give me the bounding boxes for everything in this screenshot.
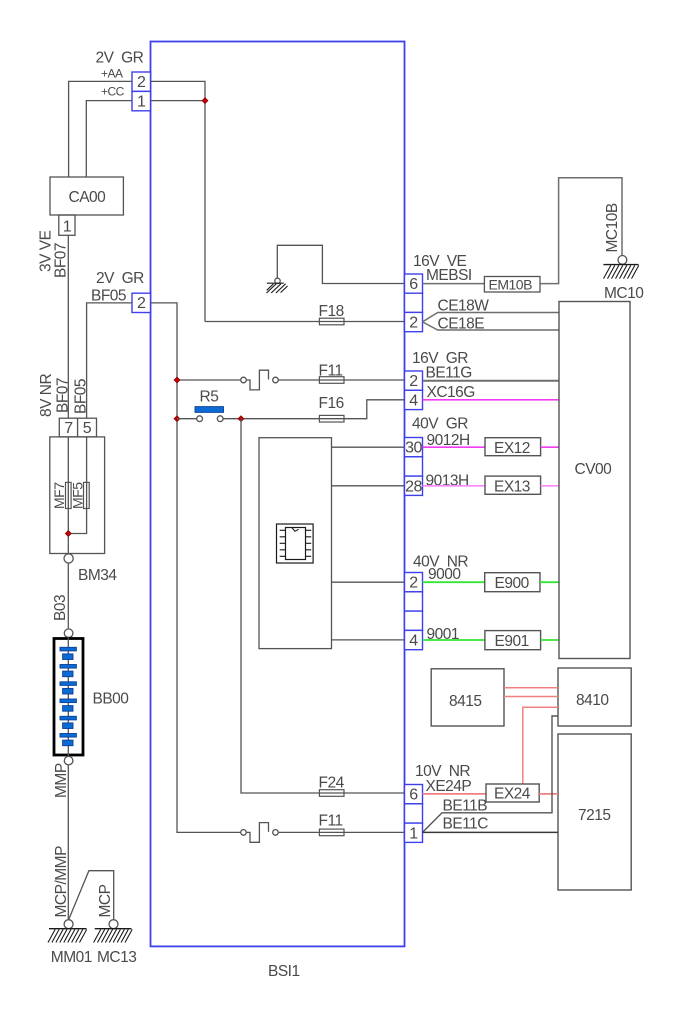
- pin 2 BE11G: [405, 371, 423, 390]
- wire BE11G: [423, 380, 560, 382]
- wire from BF05 pin 2 right, down inside BSI1: [151, 303, 241, 833]
- wire MMP battery minus to ground: [67, 765, 69, 920]
- wire BE11B pin1 to 8410: [423, 716, 559, 832]
- pin 1 +CC on BSI1 left edge: [132, 91, 151, 110]
- svg-text:XC16G: XC16G: [427, 384, 475, 401]
- empty pin cell: [405, 592, 423, 611]
- svg-text:EX13: EX13: [494, 478, 530, 495]
- wire XE24P left: [423, 793, 487, 795]
- svg-text:28: 28: [405, 478, 422, 495]
- svg-text:BE11B: BE11B: [443, 798, 488, 815]
- svg-text:6: 6: [409, 787, 418, 804]
- component 7215: [558, 734, 631, 890]
- wire XC16G: [423, 399, 560, 401]
- svg-text:BSI1: BSI1: [268, 963, 300, 980]
- wire 9001 right: [541, 639, 559, 641]
- wire +CC from pin 1 to CA00: [86, 101, 132, 177]
- svg-text:BE11C: BE11C: [443, 816, 489, 833]
- svg-text:MCP/MMP: MCP/MMP: [53, 846, 70, 918]
- svg-text:1: 1: [409, 825, 418, 842]
- wire 9001 left: [423, 639, 485, 641]
- svg-text:9013H: 9013H: [426, 473, 469, 490]
- wire 8410 to EX24: [523, 707, 558, 784]
- wire to switch (F11 top): [177, 379, 241, 381]
- wire 8415-8410 a: [504, 687, 558, 689]
- wire 9013H left: [423, 485, 486, 487]
- wire CE18W: [423, 313, 560, 322]
- node battery -: [64, 756, 73, 765]
- connector EX13: [485, 476, 541, 494]
- battery BB00 internal wire: [67, 637, 69, 758]
- wire 9012H left: [423, 446, 486, 448]
- connector EM10B: [484, 277, 540, 293]
- wire switch to F11 to pin 2: [278, 379, 404, 381]
- wire 8415-8410 b: [504, 696, 558, 698]
- connector EX24: [486, 784, 539, 802]
- ground MM01: [64, 920, 73, 929]
- svg-text:XE24P: XE24P: [426, 778, 472, 795]
- svg-text:8410: 8410: [576, 692, 609, 709]
- BSI1 control unit outline: [151, 42, 405, 947]
- svg-text:EX24: EX24: [494, 786, 531, 803]
- svg-text:+CC: +CC: [101, 85, 125, 99]
- component 8415: [431, 669, 504, 726]
- pin 2 9000: [405, 573, 423, 592]
- svg-text:2: 2: [137, 74, 146, 91]
- svg-text:BM34: BM34: [78, 567, 117, 584]
- svg-text:E900: E900: [495, 575, 530, 592]
- junction BF05/R5: [174, 416, 180, 422]
- wire BF07 from CA00 pin 1 down to pin 7: [67, 235, 69, 418]
- junction R5/F24: [238, 416, 244, 422]
- empty pin cell: [405, 611, 423, 630]
- svg-text:2: 2: [137, 295, 146, 312]
- svg-text:MCP: MCP: [97, 884, 114, 917]
- pin 4 9001: [405, 630, 423, 649]
- connector E900: [485, 573, 540, 592]
- fuse MF5: [84, 482, 90, 508]
- svg-text:2: 2: [409, 373, 418, 390]
- wire +AA from pin 2 to CA00: [69, 81, 132, 177]
- svg-text:2V GR: 2V GR: [96, 270, 144, 287]
- pin 6 XE24P: [405, 785, 423, 804]
- svg-text:1: 1: [63, 218, 72, 235]
- wire 9012H right: [541, 446, 559, 448]
- wire EM10B to ground MC10: [540, 178, 622, 284]
- svg-text:E901: E901: [495, 633, 529, 650]
- ground MC13: [109, 920, 118, 929]
- connector EX12: [485, 438, 541, 456]
- svg-text:CV00: CV00: [575, 461, 613, 478]
- svg-text:9000: 9000: [428, 566, 461, 583]
- pin 30 9012H: [405, 438, 423, 457]
- battery BB00 plates: [60, 647, 76, 651]
- fuse box BM (outline): [50, 437, 105, 554]
- switch contact (F11 top): [241, 377, 247, 383]
- svg-text:8V NR: 8V NR: [38, 374, 55, 417]
- ground MC10: [618, 256, 627, 265]
- wire switch to F11 to pin 1: [278, 831, 404, 833]
- svg-text:1: 1: [137, 93, 146, 110]
- wire through fuse MF7: [67, 437, 69, 554]
- svg-text:6: 6: [409, 276, 418, 293]
- svg-text:R5: R5: [200, 389, 219, 406]
- component 8410: [558, 668, 631, 726]
- internal ground symbol: [275, 278, 280, 283]
- component CV00: [559, 302, 630, 659]
- svg-text:BE11G: BE11G: [426, 365, 472, 382]
- wire F24 branch: [241, 419, 405, 793]
- battery BB00 outline: [54, 639, 83, 756]
- wire internal ground to pin 6 MEBSI: [277, 245, 404, 283]
- svg-text:30: 30: [405, 440, 422, 457]
- wire CE18E: [423, 322, 560, 330]
- wire BF05 from pin 2 left down to pin 5: [87, 303, 132, 418]
- svg-text:MC10B: MC10B: [604, 203, 621, 252]
- svg-text:2: 2: [409, 575, 418, 592]
- node BM34: [64, 554, 73, 563]
- svg-text:F16: F16: [319, 395, 344, 412]
- svg-text:40V GR: 40V GR: [412, 416, 468, 433]
- svg-text:BB00: BB00: [93, 691, 130, 708]
- svg-text:F24: F24: [319, 775, 345, 792]
- svg-text:B03: B03: [52, 595, 69, 621]
- wire 9000 right: [540, 581, 559, 583]
- wire +CC from pin 1 right to junction, down to F18: [151, 101, 206, 322]
- pin 5: [78, 418, 97, 437]
- empty pin cell: [405, 293, 423, 312]
- svg-text:MEBSI: MEBSI: [426, 267, 472, 284]
- wires internal module to pins 30/28/2/4: [332, 446, 405, 448]
- wire BE11C pin1 to 7215: [423, 831, 559, 833]
- wire XE24P right: [539, 793, 558, 795]
- svg-text:F18: F18: [319, 303, 344, 320]
- fuse MF7: [66, 482, 72, 508]
- pin 2 CE18: [405, 312, 423, 331]
- svg-text:EX12: EX12: [494, 440, 530, 457]
- svg-text:2: 2: [409, 315, 418, 332]
- wire R5 to F16 to pin 4: [223, 400, 404, 419]
- svg-text:BF07: BF07: [54, 378, 71, 413]
- pin 2 +AA on BSI1 left edge: [132, 72, 151, 91]
- svg-text:MF7: MF7: [51, 482, 67, 509]
- IC chip symbol: [277, 524, 314, 563]
- empty pin cell: [405, 804, 423, 823]
- svg-text:BF05: BF05: [72, 379, 89, 414]
- wire F18 branch: [205, 321, 405, 323]
- BSI internal module box: [259, 438, 332, 649]
- svg-text:MC10: MC10: [604, 285, 644, 302]
- junction BF05/F11: [174, 377, 180, 383]
- junction +CC node: [202, 98, 208, 104]
- svg-text:MMP: MMP: [53, 763, 70, 798]
- svg-text:2V GR: 2V GR: [96, 50, 144, 67]
- wire 9000 left: [423, 581, 485, 583]
- wire to R5 contact: [177, 418, 197, 420]
- svg-text:MC13: MC13: [97, 949, 136, 966]
- pin 1 BE11: [405, 823, 423, 842]
- svg-text:7215: 7215: [578, 807, 610, 824]
- svg-text:5: 5: [83, 420, 92, 437]
- pin 6 MEBSI: [405, 274, 423, 293]
- wire through fuse MF5: [68, 437, 86, 534]
- svg-text:4: 4: [409, 633, 418, 650]
- svg-text:CA00: CA00: [69, 189, 107, 206]
- svg-text:MM01: MM01: [51, 949, 92, 966]
- wire B03: [67, 563, 69, 629]
- svg-text:7: 7: [64, 420, 73, 437]
- wire +AA from pin 2 right to junction: [151, 81, 206, 100]
- pin 28 9013H: [405, 476, 423, 495]
- connector E901: [485, 631, 541, 650]
- pin 1 of CA00: [59, 215, 75, 235]
- svg-text:BF07: BF07: [53, 243, 70, 278]
- svg-text:F11: F11: [319, 813, 343, 830]
- pin 2 BF05 on BSI1 left edge: [132, 293, 151, 312]
- junction MF5/MF7: [65, 531, 71, 537]
- component CA00 (ignition switch): [50, 177, 123, 215]
- wire pin 6 to EM10B: [423, 283, 485, 285]
- svg-text:8415: 8415: [449, 693, 481, 710]
- node battery +: [64, 629, 73, 638]
- wire MCP strap to MC13: [69, 871, 114, 920]
- pin 7: [59, 418, 77, 437]
- svg-text:MF5: MF5: [69, 482, 85, 509]
- svg-text:EM10B: EM10B: [489, 277, 533, 293]
- pin 4 XC16G: [405, 390, 423, 409]
- svg-text:BF05: BF05: [91, 288, 126, 305]
- wire 9013H right: [541, 485, 559, 487]
- empty pin cell: [405, 457, 423, 476]
- svg-text:4: 4: [409, 393, 418, 410]
- switch contact (F11 bottom): [241, 830, 247, 836]
- svg-text:+AA: +AA: [101, 67, 123, 81]
